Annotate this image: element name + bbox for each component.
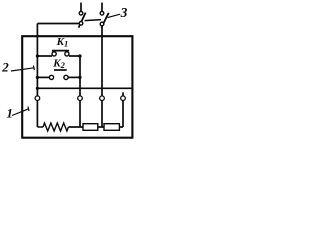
leader line for label 1 (crosses left border)	[12, 107, 29, 116]
terminal circle 3	[100, 96, 105, 101]
junction dot at K1 right corner	[78, 54, 81, 57]
contact K2 : left contact circle	[49, 75, 53, 79]
contact K2 : right contact circle	[64, 75, 68, 79]
terminal circle 1	[35, 96, 40, 101]
wire: chain segment from box resistor 2 to terminal-4 drop	[119, 126, 123, 128]
contact K2 : bridge bar	[54, 69, 67, 71]
svg-text:K2: K2	[52, 57, 65, 70]
knife switch 3 : pole 1 upper contact B	[79, 11, 83, 15]
junction dot at K2 left	[36, 76, 39, 79]
wire: bottom chain segment from zigzag to box resistor 1	[68, 126, 83, 128]
wire: top feed from box corner to switch pole A	[37, 23, 79, 25]
knife switch 3 : pole 1 fixed contact A	[79, 22, 83, 26]
leader line for label 2	[11, 66, 34, 72]
terminal circle 4	[121, 96, 126, 101]
knife switch 3 : pole 1 blade	[79, 13, 86, 28]
svg-text:2: 2	[1, 59, 9, 74]
resistor element R (zigzag) in bottom chain	[37, 123, 68, 131]
outer enclosure box (resistor box, item 1)	[22, 36, 132, 138]
contact K1 : left wire	[37, 55, 52, 57]
wire: right ladder vertical x=80 from K1 row down to bottom chain	[79, 56, 81, 127]
terminal circle 2	[78, 96, 83, 101]
contact K1 : bridge bar	[52, 50, 69, 52]
contact K2 : right wire to right ladder vertical	[68, 76, 80, 78]
wire: from contact D down through box top border	[101, 26, 103, 127]
leader line for label 3	[108, 14, 120, 17]
knife switch 3 : mechanical link bar between blades	[85, 20, 101, 21]
wire: lead up from contact C	[101, 3, 103, 12]
svg-text:K1: K1	[56, 36, 69, 49]
wire: horizontal rail inside box y=88.3	[37, 87, 131, 89]
junction dot at K1 left	[36, 54, 39, 57]
knife switch 3 : pole 2 lower contact D	[100, 22, 104, 26]
box resistor 2	[104, 124, 119, 131]
knife switch 3 : pole 2 upper contact C	[100, 11, 104, 15]
wire: lead up from contact B	[80, 3, 82, 12]
contact K1 : left contact circle	[52, 52, 56, 56]
box resistor 1	[83, 124, 98, 131]
contact K1 : right wire to right ladder vertical	[69, 55, 80, 57]
svg-text:1: 1	[6, 105, 12, 120]
contact K2 : left wire	[37, 76, 49, 78]
wire: left vertical bus from feed corner down into box to bottom resistor chain	[36, 24, 38, 128]
svg-text:3: 3	[120, 5, 128, 20]
contact K1 : right contact circle	[65, 52, 69, 56]
wire: stub above terminal 4	[122, 92, 124, 96]
junction dot at rail left	[36, 87, 39, 90]
wire: terminal 4 down to chain corner	[122, 101, 124, 128]
knife switch 3 : pole 2 blade	[101, 13, 108, 28]
junction dot at K2 right	[78, 76, 81, 79]
wire: chain segment between box resistors	[98, 126, 104, 128]
